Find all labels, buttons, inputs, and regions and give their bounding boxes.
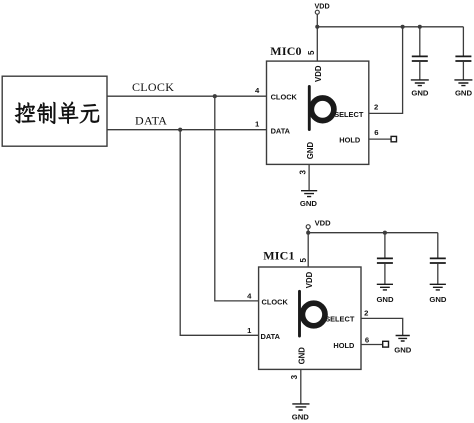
- svg-text:CLOCK: CLOCK: [262, 297, 289, 306]
- svg-text:GND: GND: [292, 412, 310, 421]
- capacitor C2: [455, 27, 471, 80]
- svg-text:4: 4: [255, 86, 260, 95]
- ground for C1: [411, 80, 429, 86]
- svg-text:SELECT: SELECT: [334, 110, 364, 119]
- svg-text:1: 1: [247, 326, 252, 335]
- wire VDD rail: [317, 26, 463, 28]
- svg-text:GND: GND: [306, 142, 315, 160]
- op-amp U1 MIC0 box: [267, 61, 369, 164]
- ground for C2: [454, 80, 472, 86]
- svg-text:3: 3: [290, 374, 299, 379]
- node cap C1 junction: [418, 25, 422, 29]
- svg-text:GND: GND: [394, 345, 412, 354]
- node clock junction: [213, 94, 217, 98]
- capacitor C3: [377, 233, 393, 284]
- control unit box: [2, 76, 107, 146]
- svg-text:GND: GND: [300, 199, 318, 208]
- svg-text:GND: GND: [411, 88, 429, 97]
- svg-text:HOLD: HOLD: [339, 135, 361, 144]
- wire VDD drop: [316, 14, 318, 61]
- wire HOLD MIC1: [361, 344, 383, 346]
- svg-text:6: 6: [365, 335, 369, 344]
- svg-text:1: 1: [255, 120, 260, 129]
- terminal square HOLD MIC1: [383, 341, 389, 347]
- ground for C3: [377, 284, 393, 290]
- svg-text:DATA: DATA: [261, 332, 281, 341]
- wire select riser: [369, 27, 403, 114]
- node vdd junction: [315, 25, 319, 29]
- microphone symbol MIC0: [309, 87, 334, 130]
- svg-text:VDD: VDD: [305, 271, 314, 288]
- wire DATA horizontal: [107, 129, 267, 131]
- wire VDD drop lower: [307, 229, 309, 267]
- node cap C3 junction: [383, 231, 387, 235]
- wire VDD rail lower: [308, 232, 438, 234]
- wire GND pin MIC1: [300, 369, 302, 403]
- wire GND pin MIC0: [308, 164, 310, 190]
- wire SELECT MIC1 to ground: [361, 318, 403, 335]
- microphone symbol MIC1: [300, 291, 326, 336]
- svg-text:4: 4: [247, 291, 252, 300]
- svg-text:5: 5: [299, 258, 308, 263]
- op-amp U2 MIC1 box: [259, 267, 361, 369]
- svg-text:2: 2: [364, 308, 368, 317]
- node vdd junction lower: [306, 231, 310, 235]
- svg-text:GND: GND: [376, 295, 394, 304]
- svg-text:VDD: VDD: [315, 218, 332, 227]
- wire data vertical to MIC1: [180, 130, 258, 336]
- svg-text:CLOCK: CLOCK: [271, 93, 298, 102]
- node data junction: [178, 128, 182, 132]
- capacitor C1: [412, 27, 428, 80]
- terminal square HOLD MIC0: [391, 136, 396, 141]
- wire CLOCK horizontal: [107, 95, 267, 97]
- svg-text:GND: GND: [429, 295, 447, 304]
- svg-text:3: 3: [298, 170, 307, 175]
- svg-text:SELECT: SELECT: [325, 315, 355, 324]
- svg-text:MIC0: MIC0: [270, 44, 301, 58]
- wire HOLD MIC0: [369, 138, 391, 140]
- node select riser junction: [401, 25, 405, 29]
- svg-text:VDD: VDD: [314, 65, 323, 82]
- ground for MIC0: [301, 191, 317, 197]
- svg-text:DATA: DATA: [271, 127, 291, 136]
- ground for SELECT MIC1: [396, 336, 410, 342]
- svg-text:CLOCK: CLOCK: [132, 80, 174, 94]
- capacitor C4: [430, 233, 446, 284]
- svg-text:VDD: VDD: [315, 1, 330, 10]
- ground for C4: [430, 284, 446, 290]
- svg-text:GND: GND: [455, 88, 473, 97]
- svg-text:DATA: DATA: [135, 114, 167, 128]
- ground for MIC1: [292, 404, 309, 410]
- svg-text:2: 2: [374, 102, 378, 111]
- supply VDD lower: [306, 225, 310, 229]
- svg-text:6: 6: [374, 128, 378, 137]
- wire clock vertical to MIC1: [215, 96, 259, 301]
- control unit label 控制单元: [15, 102, 99, 124]
- svg-text:MIC1: MIC1: [263, 249, 294, 263]
- svg-text:5: 5: [307, 50, 316, 55]
- svg-text:GND: GND: [297, 347, 306, 365]
- svg-text:HOLD: HOLD: [333, 341, 355, 350]
